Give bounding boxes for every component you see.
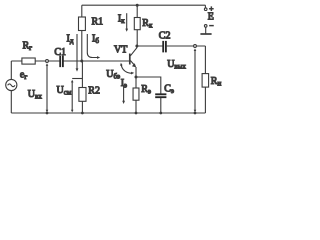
node Uvx terminal circle — [46, 60, 49, 63]
capacitor C2 — [163, 41, 166, 53]
wire R1 top lead — [81, 5, 83, 17]
wire Usm reference tick — [72, 78, 82, 80]
svg-text:C1: C1 — [54, 47, 66, 58]
wire top rail — [82, 4, 206, 6]
terminal E minus — [204, 25, 207, 28]
junction collector node dot — [135, 45, 138, 48]
svg-text:Iб: Iб — [92, 34, 99, 46]
transistor VT emitter line with arrow — [130, 61, 134, 65]
wire Re top lead — [135, 77, 137, 88]
wire bottom rail — [11, 112, 205, 114]
node output terminal circle — [194, 45, 197, 48]
resistor Rg — [22, 58, 35, 64]
wire Usm voltage arrow (double-headed) — [71, 82, 73, 112]
wire C2 to output corner — [166, 45, 205, 47]
resistor Rn — [202, 74, 209, 88]
wire right vertical load branch — [204, 46, 206, 113]
current arrow Ik — [126, 13, 128, 30]
current arrow Ib (curved toward base) — [87, 34, 98, 58]
svg-text:eг: eг — [20, 70, 27, 82]
svg-text:Iд: Iд — [67, 34, 74, 46]
wire R2 bottom lead — [81, 101, 83, 113]
resistor R1 — [79, 17, 86, 31]
wire Rk top lead — [136, 5, 138, 17]
wire R2 top lead — [81, 61, 83, 88]
svg-text:VT: VT — [114, 44, 127, 55]
wire left vertical (generator branch) — [10, 61, 12, 113]
wire top-right corner drop to + terminal — [204, 5, 206, 8]
junction R2 at bottom rail — [81, 112, 84, 115]
svg-text:Rг: Rг — [23, 40, 33, 52]
svg-text:Cэ: Cэ — [164, 83, 174, 95]
capacitor C1 — [60, 56, 63, 68]
current arrow Ie — [123, 86, 125, 102]
junction base node dot — [80, 60, 83, 63]
wire Rk bottom lead (collector) — [136, 30, 138, 46]
svg-text:Uвх: Uвх — [28, 89, 43, 101]
junction Uout at bottom rail — [194, 112, 197, 115]
svg-text:Uбэ: Uбэ — [106, 69, 120, 81]
ground stem — [205, 27, 207, 33]
wire C1 to base junction — [63, 60, 129, 62]
wire Ce bottom lead — [160, 98, 162, 113]
junction Rk at top rail — [136, 4, 139, 7]
svg-text:Rк: Rк — [142, 18, 153, 30]
junction Re at bottom rail — [135, 112, 138, 115]
svg-text:R1: R1 — [92, 17, 104, 28]
svg-text:Iэ: Iэ — [121, 78, 127, 90]
svg-text:−: − — [209, 21, 213, 30]
resistor Re — [133, 88, 139, 100]
transistor VT collector line — [130, 46, 136, 56]
wire Uout voltage arrow (double-headed) — [194, 50, 196, 111]
wire Re bottom lead — [135, 100, 137, 113]
wire collector to C2 — [137, 45, 163, 47]
wire emitter to Ce corner — [136, 77, 161, 94]
svg-text:Iк: Iк — [118, 14, 125, 26]
wire Uvx voltage arrow (double-headed) — [46, 65, 48, 112]
voltage arrow Ube (curved, double-headed) — [121, 65, 131, 74]
svg-text:Rэ: Rэ — [141, 84, 151, 96]
svg-text:Uвых: Uвых — [167, 59, 186, 71]
transistor VT base bar — [129, 54, 131, 65]
svg-text:R2: R2 — [88, 86, 100, 97]
wire R1 bottom lead — [81, 31, 83, 62]
source eg (sine generator) — [6, 79, 17, 90]
svg-text:Rн: Rн — [211, 76, 222, 88]
junction emitter node dot — [135, 76, 138, 79]
junction Ce at bottom rail — [159, 112, 162, 115]
junction Uvx at bottom rail — [46, 112, 49, 115]
wire left input segment — [11, 60, 60, 62]
capacitor Ce — [155, 94, 166, 97]
current arrow Id — [76, 34, 78, 70]
svg-text:Uсм: Uсм — [57, 85, 72, 97]
ground bar — [200, 33, 211, 35]
svg-text:C2: C2 — [159, 30, 171, 41]
resistor Rk — [134, 18, 140, 30]
resistor R2 — [79, 88, 86, 102]
terminal E plus — [204, 8, 207, 11]
wire emitter lead down — [135, 67, 137, 77]
